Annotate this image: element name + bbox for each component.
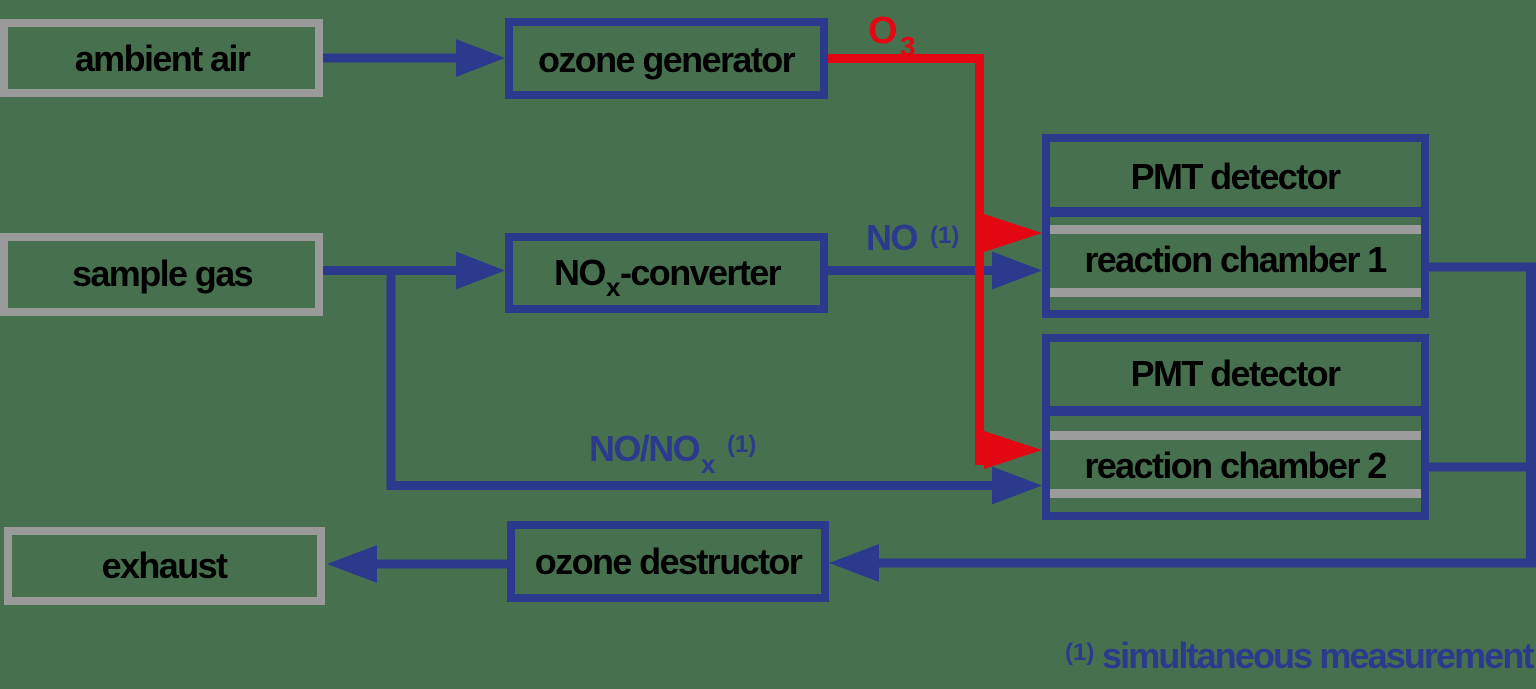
node: NO (1) label [866,217,959,258]
node: NO/NOx (1) label [589,428,756,479]
box: sample gas [4,237,319,312]
svg-text:3: 3 [900,31,916,62]
wire: NOx-converter to reaction chamber 1 (NO line) [824,252,1042,290]
svg-text:(1): (1) [930,222,959,249]
svg-text:reaction chamber 2: reaction chamber 2 [1084,445,1386,486]
box: PMT detector 2 + reaction chamber 2 unit [1046,338,1425,516]
wire: ambient air to ozone generator [319,39,505,77]
wire: sample gas to NOx-converter [319,252,505,290]
svg-text:(1): (1) [1065,639,1094,666]
wire: red O3 line from ozone generator down to chambers [828,54,1042,469]
svg-text:exhaust: exhaust [102,545,228,586]
svg-text:(1): (1) [727,431,756,458]
gray bar top of chamber 2 [1050,431,1421,440]
box: NOx-converter [509,237,824,309]
box: ambient air [4,23,319,93]
node: footnote simultaneous measurement [1065,635,1534,676]
svg-text:NO/NO: NO/NO [589,428,700,469]
svg-text:PMT detector: PMT detector [1131,353,1341,394]
wire: reaction chamber 1 exit to right vertical [1425,263,1530,272]
wire: right vertical down [1526,263,1536,568]
box: PMT detector 1 + reaction chamber 1 unit [1046,138,1425,314]
wire: return line to ozone destructor with arrowhead [829,544,1535,582]
svg-text:PMT detector: PMT detector [1131,156,1341,197]
svg-text:ozone generator: ozone generator [538,39,796,80]
svg-text:NO: NO [866,217,917,258]
gray bar bottom of chamber 2 [1050,489,1421,498]
svg-text:reaction chamber 1: reaction chamber 1 [1084,239,1387,280]
svg-text:-converter: -converter [620,252,782,293]
box: ozone generator [509,22,824,95]
node: O3 label [868,10,916,62]
wire: sample gas branch down and right (NO/NOx line) [387,266,1043,505]
svg-text:ambient air: ambient air [75,38,251,79]
svg-text:x: x [606,272,621,302]
svg-text:NO: NO [554,252,605,293]
box: exhaust [8,531,321,601]
divider between PMT detector and reaction chamber 1 [1050,207,1421,217]
svg-text:simultaneous measurement: simultaneous measurement [1102,635,1534,676]
wire: ozone destructor to exhaust [327,545,511,583]
svg-text:sample gas: sample gas [72,253,253,294]
gray bar bottom of chamber 1 [1050,288,1421,297]
svg-text:x: x [701,449,716,479]
divider between PMT detector and reaction chamber 2 [1050,406,1421,416]
svg-text:ozone destructor: ozone destructor [535,541,803,582]
gray bar top of chamber 1 [1050,225,1421,234]
svg-text:O: O [868,10,897,52]
box: ozone destructor [511,525,825,598]
wire: reaction chamber 2 exit to right vertical [1425,463,1530,472]
